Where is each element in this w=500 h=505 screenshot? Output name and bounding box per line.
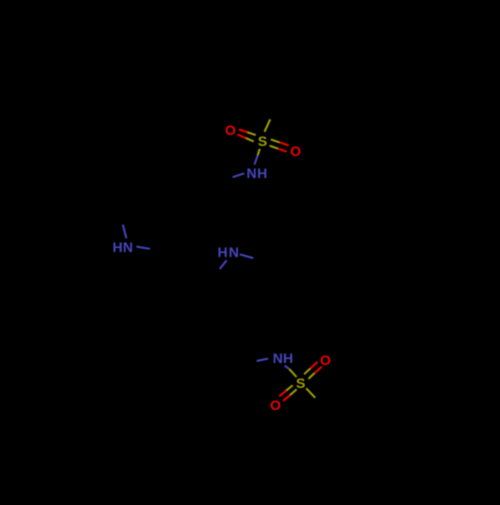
wire S1-N1 bond	[258, 149, 260, 156]
wire S1=O2 double bond line A	[271, 139, 280, 142]
wire S2-C phenyl bond	[306, 388, 315, 398]
wire S2=O4 double bond line B	[290, 389, 297, 395]
svg-text:N: N	[273, 350, 283, 366]
svg-text:H: H	[283, 350, 293, 366]
wire N2-C2 bond (indole NH right)	[136, 247, 150, 249]
wire N4-S2 bond	[285, 366, 290, 369]
wire S1=O1 double bond line B	[238, 135, 246, 138]
svg-text:H: H	[257, 165, 267, 181]
svg-text:N: N	[246, 165, 256, 181]
svg-text:N: N	[229, 244, 239, 260]
wire S2=O4 double bond line A	[286, 385, 293, 390]
wire S2=O3 double bond line A	[304, 368, 310, 374]
svg-text:S: S	[258, 133, 267, 149]
svg-text:O: O	[270, 397, 281, 413]
svg-text:H: H	[112, 239, 122, 255]
wire N3-C bond right	[240, 254, 254, 258]
svg-text:O: O	[225, 122, 236, 138]
svg-text:S: S	[296, 375, 305, 391]
wire N3-C bond down-left	[220, 260, 227, 269]
wire S1=O1 double bond line A	[239, 129, 247, 132]
svg-text:N: N	[123, 239, 133, 255]
wire N1-C bond	[233, 173, 245, 177]
svg-text:O: O	[320, 352, 331, 368]
svg-text:H: H	[218, 244, 228, 260]
wire S2=O3 double bond line B	[308, 373, 314, 379]
wire S1-C phenyl bond	[265, 119, 271, 132]
wire S1=O2 double bond line B	[270, 146, 279, 149]
wire N4-C bond left	[257, 359, 268, 361]
wire N2-C7a bond (indole NH up)	[123, 225, 127, 239]
svg-text:O: O	[290, 143, 301, 159]
